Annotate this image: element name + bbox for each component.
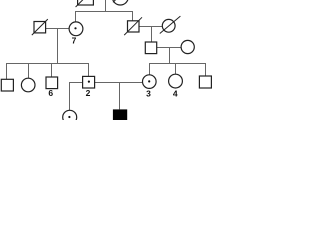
individual III-6: female circle (right couple) <box>181 40 194 53</box>
individual I-2: deceased female (circle with slash, cut off at top) <box>112 0 129 5</box>
wire: marriage line square 2 to circle 3 <box>95 82 143 84</box>
wire: riser to right square child <box>205 64 207 77</box>
wire: riser to circle 3 <box>149 64 151 75</box>
svg-text:7: 7 <box>72 36 77 46</box>
wire: riser to III-2 circle <box>28 64 30 79</box>
individual II-3: deceased male (square with slash) <box>124 17 142 35</box>
individual II-2: carrier female circle with dot, label 7 <box>69 22 83 46</box>
wire: riser to II-2 circle <box>75 12 77 22</box>
individual IV: carrier female circle with dot, label 3 <box>143 75 157 99</box>
svg-text:3: 3 <box>146 89 151 99</box>
wire: III-right marriage line <box>157 47 181 49</box>
wire: child drop to affected square <box>119 83 121 110</box>
wire: right sibship line <box>149 63 206 65</box>
individual IV: female circle, label 4 <box>169 74 183 98</box>
wire: II-left marriage drop <box>57 29 59 64</box>
individual: second partner carrier female circle with dot (cut off at bottom) <box>63 110 77 124</box>
wire: II-left marriage line <box>46 28 69 30</box>
wire: II-right marriage line <box>139 26 162 28</box>
wire: riser to III-3 square 6 <box>51 64 53 78</box>
wire: III-right marriage drop <box>169 48 171 64</box>
wire: second-partner marriage elbow of square 2 <box>70 83 83 111</box>
wire: riser to III-4 square 2 <box>88 64 90 77</box>
individual III-4: carrier male square with dot, label 2 <box>83 76 95 97</box>
svg-text:2: 2 <box>86 88 91 98</box>
individual II-4: deceased female (circle with slash) <box>160 16 181 33</box>
individual III-1: male square (leftmost child) <box>1 79 13 91</box>
svg-text:4: 4 <box>173 89 178 99</box>
wire: gen I parent drop <box>105 0 107 12</box>
individual III-3: male square, label 6 <box>46 77 58 98</box>
individual III-5: male square (right couple) <box>145 42 156 54</box>
individual: affected male filled black square (cut off at bottom) <box>113 109 127 123</box>
wire: gen I sibship line <box>75 11 133 13</box>
individual I-1: deceased male (square with slash, cut off at top) <box>76 0 96 7</box>
wire: II-right marriage drop <box>151 27 153 43</box>
svg-text:6: 6 <box>48 88 53 98</box>
individual III-2: female circle <box>21 78 35 92</box>
individual IV: male square (rightmost child) <box>199 76 211 88</box>
wire: riser to II-4 square <box>132 12 134 21</box>
wire: left sibship line <box>6 63 89 65</box>
wire: riser to circle 4 <box>175 64 177 75</box>
individual II-1: deceased male (square with slash) <box>32 19 48 35</box>
wire: riser to III-1 square <box>6 64 8 80</box>
